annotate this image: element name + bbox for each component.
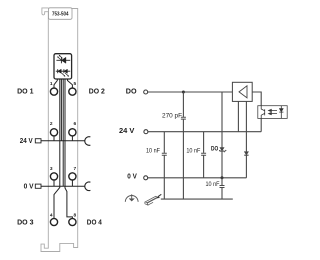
- pin 2: [50, 121, 58, 141]
- wire DO2 (box to pin 5): [68, 79, 73, 88]
- svg-text:24 V: 24 V: [119, 126, 135, 135]
- svg-text:DO 4: DO 4: [87, 218, 103, 227]
- pin 7: [69, 166, 77, 186]
- svg-text:10 nF: 10 nF: [186, 147, 200, 154]
- capacitor 10 nF (24V to 0V): [201, 132, 206, 178]
- wire driver to optocoupler: [252, 92, 261, 106]
- label box 753-504: [49, 8, 73, 19]
- optocoupler U2: [258, 106, 287, 119]
- 0V field supply crossbar: [41, 185, 85, 187]
- svg-text:DO: DO: [211, 146, 218, 153]
- svg-text:10 nF: 10 nF: [206, 181, 220, 188]
- wire 24V rail: [148, 131, 261, 133]
- svg-text:1: 1: [50, 81, 53, 87]
- svg-text:DO 1: DO 1: [17, 86, 33, 95]
- phototransistor: [261, 106, 265, 119]
- wire DO3 (box to pin 4): [54, 79, 60, 218]
- svg-text:DO 2: DO 2: [89, 86, 105, 95]
- wire driver to 24V rail: [237, 101, 239, 131]
- wire optocoupler to 24V rail: [260, 118, 262, 131]
- pin 8: [69, 212, 77, 225]
- node 0V terminal: [127, 172, 147, 181]
- svg-text:753-504: 753-504: [52, 11, 69, 17]
- DIN rail contact arrow: [159, 194, 162, 196]
- output driver U1: [232, 82, 252, 101]
- suppressor diode DO (zener, DO to 0V): [220, 92, 227, 178]
- node 24V terminal: [119, 126, 148, 135]
- capacitor 10 nF (0V to chassis): [220, 178, 225, 199]
- pin 4: [50, 212, 58, 225]
- svg-text:6: 6: [73, 121, 76, 127]
- wire DO rail: [148, 91, 233, 93]
- functional earth symbol: [125, 194, 138, 202]
- svg-text:3: 3: [50, 166, 53, 172]
- 0V supply plug terminal: [35, 184, 41, 188]
- 24V field supply crossbar: [41, 140, 85, 142]
- capacitor 10 nF (24V to chassis): [162, 132, 167, 199]
- junction on DO rail: [182, 91, 185, 94]
- DIN rail contact symbol: [145, 196, 158, 205]
- pin 5: [69, 81, 77, 95]
- wire DO1 (box to pin 1): [54, 79, 57, 88]
- freewheeling diode (driver to 0V): [244, 101, 248, 177]
- wire 0V rail: [148, 177, 247, 179]
- LED (inside optocoupler): [279, 106, 283, 119]
- wire 0V supply (box to 0V crossbar): [62, 79, 64, 186]
- svg-text:DO: DO: [126, 87, 137, 96]
- wire chassis line: [161, 198, 233, 200]
- 24V power jumper contact: [85, 137, 91, 146]
- svg-text:270 pF: 270 pF: [162, 112, 182, 119]
- svg-text:7: 7: [73, 166, 76, 172]
- capacitor 270 pF (DO to chassis): [181, 92, 186, 199]
- pin 6: [69, 121, 77, 141]
- pin 3: [50, 166, 58, 186]
- 0V power jumper contact: [85, 182, 91, 191]
- LED D2 and LED D3 (lower status LEDs): [56, 69, 70, 76]
- module body outline: [41, 8, 78, 252]
- svg-text:24 V: 24 V: [20, 136, 33, 145]
- node DO terminal: [126, 87, 148, 96]
- pin 1: [50, 81, 58, 95]
- svg-text:10 nF: 10 nF: [146, 147, 160, 154]
- svg-text:0 V: 0 V: [24, 181, 34, 190]
- light arrows: [269, 109, 277, 114]
- wire 24V supply (box to 24V crossbar): [60, 79, 62, 141]
- svg-text:DO 3: DO 3: [17, 218, 33, 227]
- 24V supply plug terminal: [35, 139, 41, 143]
- svg-text:8: 8: [73, 212, 76, 218]
- wire DO4 (box to pin 8): [65, 79, 72, 218]
- svg-text:5: 5: [73, 81, 76, 87]
- svg-text:2: 2: [50, 121, 53, 127]
- svg-text:4: 4: [50, 212, 53, 218]
- LED D1 (top status LED): [56, 55, 70, 63]
- svg-text:0 V: 0 V: [127, 172, 137, 181]
- LED indicator box: [54, 54, 72, 79]
- junction on 0V rail: [221, 176, 224, 179]
